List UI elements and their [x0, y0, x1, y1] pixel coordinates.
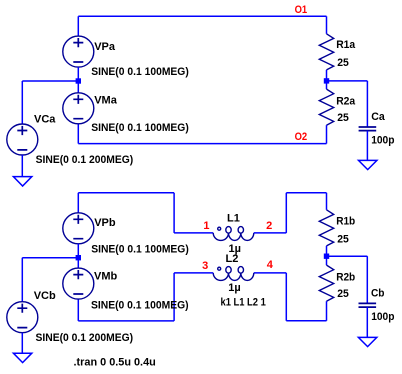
- voltage source VMb: [63, 268, 94, 299]
- voltage source VCb: [7, 302, 38, 333]
- wire Ca top lead: [366, 81, 368, 127]
- voltage source VPa: [63, 36, 94, 67]
- wire top rail circuit B right: [286, 192, 326, 194]
- wire step down from L2 left: [173, 273, 175, 321]
- wire step up to L2 right: [285, 273, 287, 321]
- svg-text:SINE(0 0.1 200MEG): SINE(0 0.1 200MEG): [36, 154, 134, 166]
- resistor R1a: [319, 34, 333, 70]
- svg-text:SINE(0 0.1 200MEG): SINE(0 0.1 200MEG): [36, 332, 134, 344]
- svg-text:VCa: VCa: [34, 114, 56, 126]
- phase dot L2: [218, 267, 221, 270]
- wire bottom rail circuit A: [78, 143, 326, 145]
- svg-text:SINE(0 0.1 100MEG): SINE(0 0.1 100MEG): [91, 243, 189, 255]
- wire VPb to VMb: [77, 244, 79, 268]
- resistor R2b: [319, 265, 333, 301]
- wire Cb bottom lead: [366, 307, 368, 337]
- wire junction to Cb: [327, 255, 368, 257]
- svg-text:25: 25: [337, 112, 349, 124]
- wire bottom rail circuit B right: [286, 320, 326, 322]
- resistor R1b: [319, 210, 333, 246]
- svg-text:1: 1: [203, 220, 209, 232]
- wire top rail circuit B left: [78, 192, 174, 194]
- junction A right: [324, 78, 329, 83]
- svg-text:4: 4: [267, 259, 274, 271]
- svg-text:L1: L1: [227, 213, 240, 225]
- phase dot L1: [218, 227, 221, 230]
- ground Cb: [358, 337, 376, 346]
- svg-text:25: 25: [337, 57, 349, 69]
- inductor L1: [213, 227, 254, 241]
- svg-text:100p: 100p: [371, 311, 395, 323]
- wire junction to Ca: [327, 80, 368, 82]
- resistor R2a: [319, 89, 333, 125]
- wire VPa top lead: [77, 16, 79, 36]
- voltage source VPb: [63, 213, 94, 244]
- wire Cb top lead: [366, 256, 368, 303]
- svg-text:O1: O1: [295, 4, 308, 16]
- wire R2b bottom lead: [326, 301, 328, 321]
- svg-text:.tran 0 0.5u 0.4u: .tran 0 0.5u 0.4u: [74, 357, 156, 369]
- wire junction A to VCa branch: [22, 80, 78, 82]
- wire R1a top lead: [326, 16, 328, 34]
- wire VCb bottom lead: [21, 333, 23, 354]
- wire VMb bottom lead: [77, 299, 79, 321]
- junction B right: [324, 254, 329, 259]
- wire step up from L1: [285, 193, 287, 233]
- svg-text:Cb: Cb: [371, 287, 385, 299]
- wire L1 right lead: [254, 232, 286, 234]
- svg-text:R1a: R1a: [336, 39, 356, 51]
- svg-text:O2: O2: [295, 131, 308, 143]
- svg-text:SINE(0 0.1 100MEG): SINE(0 0.1 100MEG): [91, 299, 189, 311]
- junction A left: [76, 78, 81, 83]
- svg-text:2: 2: [266, 220, 272, 232]
- svg-text:100p: 100p: [371, 134, 395, 146]
- voltage source VMa: [63, 93, 94, 124]
- inductor L2: [213, 267, 254, 281]
- svg-text:VCb: VCb: [34, 290, 56, 302]
- wire VMa bottom lead: [77, 124, 79, 144]
- svg-text:Ca: Ca: [371, 111, 385, 123]
- wire VCa top lead: [21, 81, 23, 124]
- wire VPb top lead: [77, 193, 79, 213]
- wire R2a bottom lead: [326, 125, 328, 143]
- svg-text:SINE(0 0.1 100MEG): SINE(0 0.1 100MEG): [91, 66, 189, 78]
- wire L2 right lead: [254, 272, 286, 274]
- capacitor Cb: [359, 303, 377, 307]
- wire R1b bottom to R2b top: [326, 246, 328, 265]
- svg-text:R2a: R2a: [336, 95, 356, 107]
- wire R1b top lead: [326, 193, 328, 210]
- svg-text:R1b: R1b: [336, 216, 355, 228]
- voltage source VCa: [7, 124, 38, 155]
- svg-text:k1 L1 L2 1: k1 L1 L2 1: [221, 297, 266, 309]
- ground Ca: [359, 160, 377, 169]
- svg-text:25: 25: [337, 288, 349, 300]
- capacitor Ca: [359, 127, 377, 131]
- ground VCb: [13, 353, 31, 362]
- svg-text:25: 25: [337, 233, 349, 245]
- wire VCa bottom lead: [21, 155, 23, 177]
- wire step down to L1: [173, 193, 175, 233]
- junction B left: [76, 255, 81, 260]
- svg-text:SINE(0 0.1 100MEG): SINE(0 0.1 100MEG): [91, 122, 189, 134]
- wire bottom rail circuit B left: [78, 320, 174, 322]
- wire R1a bottom to R2a top: [326, 70, 328, 89]
- wire VPa to VMa: [77, 67, 79, 93]
- wire Ca bottom lead: [366, 131, 368, 161]
- wire VCb top lead: [21, 258, 23, 302]
- wire L2 left lead: [174, 272, 213, 274]
- svg-text:R2b: R2b: [336, 272, 355, 284]
- svg-text:VPa: VPa: [94, 41, 116, 53]
- svg-text:VMa: VMa: [94, 95, 118, 107]
- wire top rail circuit A: [78, 15, 326, 17]
- svg-text:L2: L2: [226, 253, 239, 265]
- ground VCa: [13, 177, 31, 186]
- wire junction B to VCb branch: [22, 257, 78, 259]
- wire L1 left lead: [174, 232, 213, 234]
- svg-text:VMb: VMb: [94, 270, 118, 282]
- svg-text:VPb: VPb: [94, 217, 116, 229]
- svg-text:3: 3: [202, 260, 208, 272]
- svg-text:1µ: 1µ: [228, 282, 240, 294]
